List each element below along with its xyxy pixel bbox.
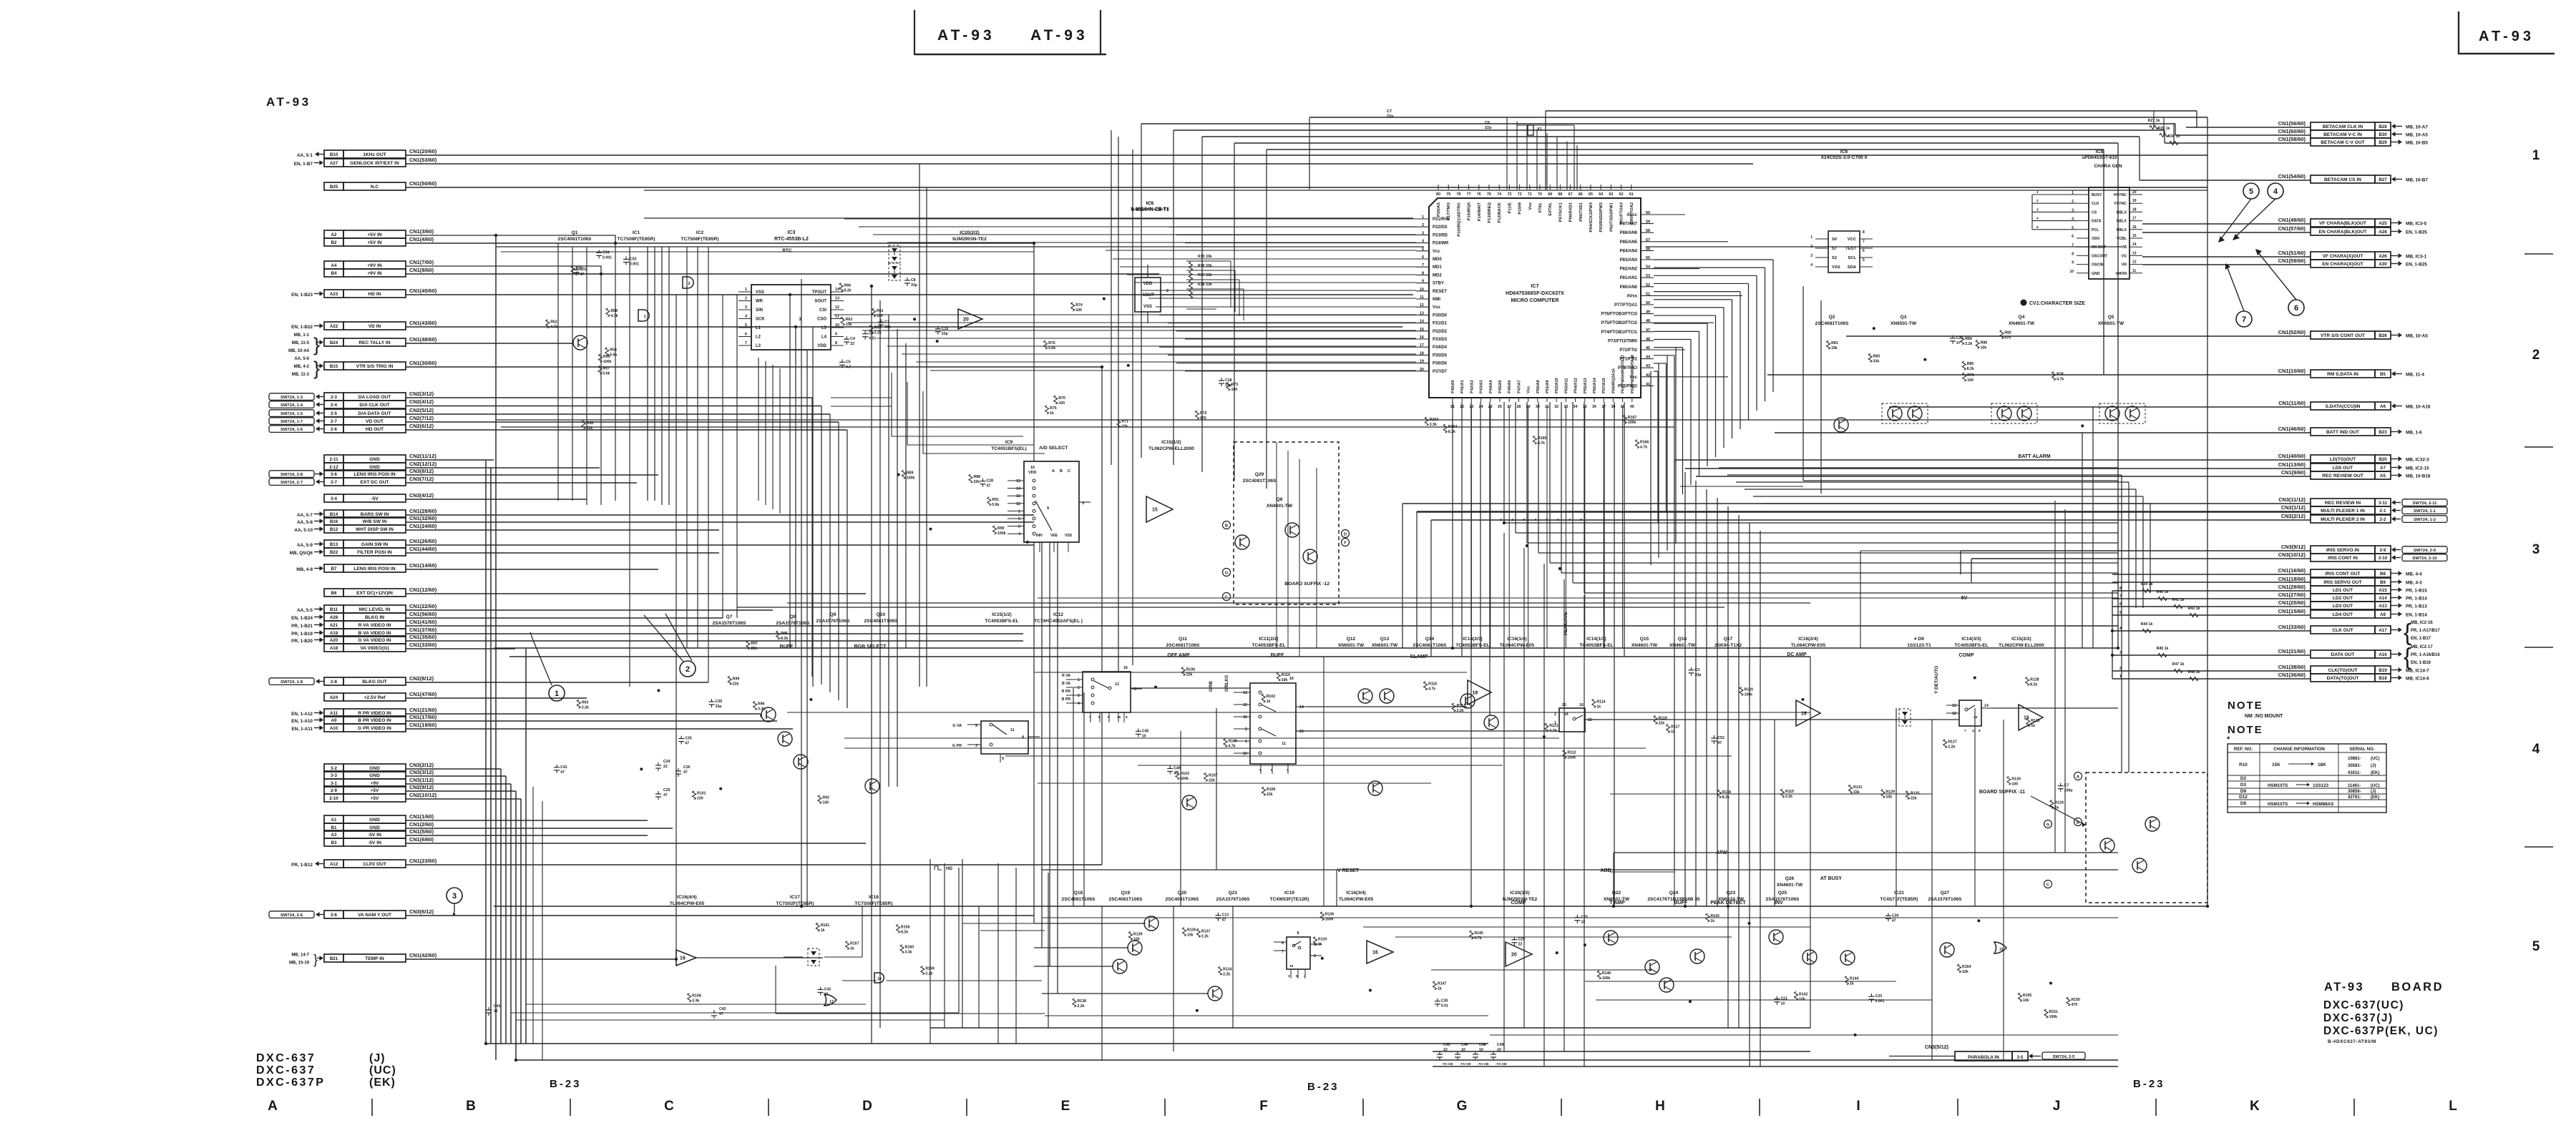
svg-text:IRIS CONT IN: IRIS CONT IN <box>2328 556 2358 561</box>
svg-text:C48: C48 <box>1479 1043 1486 1047</box>
svg-text:40: 40 <box>1630 405 1634 409</box>
svg-text:P23/RD: P23/RD <box>1433 233 1448 237</box>
svg-text:(J): (J) <box>369 1052 386 1064</box>
svg-text:11: 11 <box>1010 728 1015 732</box>
svg-text:GND: GND <box>369 825 380 830</box>
svg-text:TC7S02F(TE85R): TC7S02F(TE85R) <box>776 901 814 906</box>
svg-text:13: 13 <box>1016 479 1020 484</box>
svg-text:2SA1576T106S: 2SA1576T106S <box>816 619 851 624</box>
svg-text:22k: 22k <box>1911 797 1917 801</box>
svg-text:MB, 11-5: MB, 11-5 <box>292 341 310 345</box>
svg-text:P82/AN2: P82/AN2 <box>1620 268 1638 272</box>
svg-text:TC7S08F(TE85R): TC7S08F(TE85R) <box>680 237 718 242</box>
svg-text:CN1(57/60): CN1(57/60) <box>2278 225 2306 232</box>
svg-text:C24: C24 <box>663 760 670 764</box>
svg-text:CN2(7/12): CN2(7/12) <box>409 415 434 421</box>
svg-text:18: 18 <box>2132 207 2137 212</box>
svg-text:R73: R73 <box>1231 383 1238 387</box>
svg-text:A18: A18 <box>330 646 338 651</box>
svg-text:C54: C54 <box>602 250 610 255</box>
svg-text:3-11: 3-11 <box>2379 501 2388 506</box>
svg-text:R142: R142 <box>1799 992 1808 996</box>
svg-text:EN, 1-A10: EN, 1-A10 <box>291 719 313 724</box>
svg-text:VF CHARA(X)OUT: VF CHARA(X)OUT <box>2323 254 2363 259</box>
svg-text:IC16(4/4): IC16(4/4) <box>677 895 697 900</box>
svg-text:C35: C35 <box>685 737 692 741</box>
svg-text:12: 12 <box>1952 712 1956 716</box>
svg-text:2.2k: 2.2k <box>1785 795 1792 799</box>
svg-text:16: 16 <box>2132 225 2137 230</box>
svg-text:WHT DISP SW IN: WHT DISP SW IN <box>356 527 394 532</box>
svg-text:CN1(23/60): CN1(23/60) <box>409 858 437 864</box>
svg-text:CN3(4/12): CN3(4/12) <box>409 492 434 499</box>
svg-text:41611-: 41611- <box>2348 771 2361 775</box>
svg-text::TA-CB: :TA-CB <box>1442 1062 1453 1066</box>
svg-text:S0: S0 <box>1832 237 1837 242</box>
svg-text:EN, 1-B24: EN, 1-B24 <box>291 616 313 621</box>
svg-text:B VA VIDEO IN: B VA VIDEO IN <box>358 631 391 636</box>
svg-text:13: 13 <box>1243 691 1247 695</box>
svg-text:P55/A13: P55/A13 <box>1584 378 1588 393</box>
svg-text:A30: A30 <box>2379 262 2387 267</box>
svg-text:0.01: 0.01 <box>869 337 876 341</box>
svg-text:R70: R70 <box>1058 396 1065 401</box>
svg-text:HD OUT: HD OUT <box>366 427 384 432</box>
svg-text:MB, 1-6: MB, 1-6 <box>2406 431 2422 436</box>
svg-text:VTR S/S TRIG IN: VTR S/S TRIG IN <box>356 364 394 369</box>
svg-text:R84: R84 <box>1965 337 1972 341</box>
svg-text:Q9: Q9 <box>830 612 836 617</box>
svg-text:4.7k: 4.7k <box>1474 936 1481 941</box>
svg-text:Q4: Q4 <box>2019 315 2025 320</box>
svg-text:MB, IC2-15: MB, IC2-15 <box>2406 466 2429 471</box>
svg-text:MB, 10-A5: MB, 10-A5 <box>2406 334 2428 339</box>
svg-text:CN1(44/60): CN1(44/60) <box>409 546 437 552</box>
svg-text:P11/E: P11/E <box>1508 202 1512 214</box>
svg-text:A: A <box>268 1099 278 1114</box>
svg-text:A4: A4 <box>331 263 337 268</box>
svg-text:P43/A3: P43/A3 <box>1480 380 1484 393</box>
svg-text:RM S.DATA IN: RM S.DATA IN <box>2327 372 2358 377</box>
svg-text:R109: R109 <box>1228 739 1237 743</box>
svg-text:P75/FTOB2/FTCI2: P75/FTOB2/FTCI2 <box>1601 321 1638 325</box>
svg-text:6: 6 <box>1271 768 1273 772</box>
svg-text:B-23: B-23 <box>2133 1078 2165 1090</box>
svg-text:R VA: R VA <box>1062 674 1070 678</box>
svg-text:R107: R107 <box>1209 773 1218 778</box>
svg-text:10k: 10k <box>1962 970 1968 974</box>
svg-text:A13: A13 <box>2379 604 2387 609</box>
svg-text:14: 14 <box>1974 715 1978 720</box>
svg-text:R17 33k: R17 33k <box>1198 273 1212 278</box>
svg-text:20: 20 <box>963 318 969 323</box>
svg-text:34: 34 <box>1574 405 1578 409</box>
svg-text:VMON: VMON <box>2115 272 2127 276</box>
svg-text:I: I <box>1856 1099 1860 1114</box>
svg-text:B10: B10 <box>330 152 338 157</box>
svg-text:XN4601-TW: XN4601-TW <box>1777 883 1803 888</box>
svg-text:IC16(2/4): IC16(2/4) <box>1798 637 1818 642</box>
svg-text:*: * <box>2227 735 2230 744</box>
svg-text:OSCOUT: OSCOUT <box>2092 254 2108 258</box>
svg-text:+2.5V Ref: +2.5V Ref <box>364 695 386 700</box>
svg-text:38: 38 <box>1611 405 1615 409</box>
svg-text:22: 22 <box>494 1009 498 1014</box>
svg-text:R144: R144 <box>1850 977 1859 981</box>
svg-text:C7: C7 <box>2064 784 2069 788</box>
svg-text:OUT: OUT <box>1145 293 1154 298</box>
svg-text:14: 14 <box>2132 242 2137 247</box>
svg-text:26: 26 <box>1498 405 1502 409</box>
svg-text:BATT IND OUT: BATT IND OUT <box>2326 430 2359 435</box>
svg-text:A17: A17 <box>2379 628 2387 633</box>
svg-text:Q26: Q26 <box>1785 876 1795 881</box>
svg-text:1KHz OUT: 1KHz OUT <box>363 152 386 157</box>
svg-text:1k: 1k <box>1850 982 1854 986</box>
svg-text:2: 2 <box>1166 289 1169 293</box>
svg-text:G/BLKG: G/BLKG <box>1225 675 1229 692</box>
svg-text:CN1(31/60): CN1(31/60) <box>2278 648 2306 654</box>
svg-text:8: 8 <box>2072 252 2074 256</box>
svg-text:Y DET/AUTO: Y DET/AUTO <box>1934 666 1939 694</box>
svg-text:2.2k: 2.2k <box>1965 342 1972 346</box>
svg-text:A11: A11 <box>330 711 338 716</box>
svg-text:18: 18 <box>877 977 882 981</box>
svg-text:8: 8 <box>1580 518 1582 522</box>
svg-text:# D9: # D9 <box>1914 637 1924 642</box>
svg-text:AA, 5-7: AA, 5-7 <box>297 513 313 518</box>
svg-text:R85: R85 <box>1967 362 1974 366</box>
svg-text:CN1(48/60): CN1(48/60) <box>409 336 437 343</box>
svg-text:VG: VG <box>2122 254 2127 258</box>
svg-text:SW724, 2-6: SW724, 2-6 <box>280 913 303 918</box>
svg-text:MB, IC2-17: MB, IC2-17 <box>2411 645 2433 649</box>
svg-text:VA NAM Y OUT: VA NAM Y OUT <box>358 913 391 918</box>
svg-text:5: 5 <box>1259 768 1262 772</box>
svg-text:33p: 33p <box>911 283 917 288</box>
svg-text:2.2k: 2.2k <box>1948 745 1955 750</box>
svg-text:}: } <box>313 953 318 967</box>
svg-text:2: 2 <box>2036 199 2039 203</box>
svg-text:22k: 22k <box>973 480 980 484</box>
svg-text:R65: R65 <box>874 326 882 330</box>
svg-text:R157: R157 <box>850 942 859 946</box>
svg-text:3-6: 3-6 <box>331 472 338 477</box>
svg-text:100k: 100k <box>2049 1015 2058 1019</box>
svg-text:63: 63 <box>1609 192 1613 197</box>
svg-text:MB, IC14-7: MB, IC14-7 <box>2406 669 2429 674</box>
svg-text:33k: 33k <box>846 323 852 327</box>
svg-text:RTC: RTC <box>782 248 792 253</box>
svg-text:IC8: IC8 <box>2096 149 2104 154</box>
svg-text:MB, IC2-16: MB, IC2-16 <box>2411 621 2433 625</box>
svg-text:R129: R129 <box>1886 790 1896 795</box>
svg-text:(UC): (UC) <box>369 1064 396 1076</box>
svg-text:64: 64 <box>1599 192 1603 197</box>
svg-text:X1: X1 <box>1537 127 1542 132</box>
svg-text:13: 13 <box>2132 251 2137 255</box>
svg-text:GND: GND <box>369 457 380 462</box>
svg-text:CN1(36/60): CN1(36/60) <box>2278 672 2306 678</box>
svg-text:A28: A28 <box>2379 230 2387 235</box>
svg-text:MB, 10-A4: MB, 10-A4 <box>288 349 310 353</box>
svg-text:CN1(45/60): CN1(45/60) <box>409 288 437 294</box>
svg-text:TC7S08F(TE85R): TC7S08F(TE85R) <box>854 901 892 906</box>
svg-text:11461-: 11461- <box>2348 784 2361 788</box>
svg-text:G: G <box>2046 823 2050 828</box>
svg-text:CN1(5/60): CN1(5/60) <box>409 828 434 835</box>
svg-text:1: 1 <box>2072 191 2074 195</box>
svg-text:HD6475368SF-DXC637X: HD6475368SF-DXC637X <box>1506 290 1564 296</box>
svg-text:IC16(1/4): IC16(1/4) <box>1507 637 1527 642</box>
svg-text:3: 3 <box>1810 254 1813 258</box>
svg-text:+5V IN: +5V IN <box>367 232 382 237</box>
svg-text:80: 80 <box>1436 192 1440 197</box>
svg-text:R151: R151 <box>2049 1010 2059 1014</box>
svg-text:8.2k: 8.2k <box>1967 367 1974 371</box>
svg-text:33p: 33p <box>1695 673 1702 677</box>
svg-text:CN1(40/60): CN1(40/60) <box>2278 453 2306 459</box>
svg-text:10: 10 <box>1780 1002 1785 1006</box>
svg-text:15: 15 <box>1299 730 1304 734</box>
svg-text:EN, 1-B22: EN, 1-B22 <box>291 325 313 330</box>
svg-text:CN1(56/60): CN1(56/60) <box>409 611 437 617</box>
svg-text:1k: 1k <box>1596 705 1601 709</box>
svg-text:69: 69 <box>1548 192 1552 197</box>
svg-text:Q18: Q18 <box>1074 891 1083 896</box>
svg-text:NOTE: NOTE <box>2228 724 2263 736</box>
svg-text:D12: D12 <box>2239 795 2248 800</box>
svg-text:1k: 1k <box>1267 700 1271 704</box>
svg-text:C4: C4 <box>850 337 855 341</box>
svg-text:33k: 33k <box>1831 346 1838 350</box>
svg-text:10: 10 <box>1479 1048 1483 1052</box>
svg-text:10: 10 <box>1497 1048 1501 1052</box>
svg-text:P60/IRQ2A16: P60/IRQ2A16 <box>1611 368 1616 393</box>
svg-text:9: 9 <box>1047 506 1049 511</box>
svg-text:C22: C22 <box>1581 916 1588 920</box>
svg-text:P20/AS: P20/AS <box>1437 202 1441 217</box>
svg-text:11: 11 <box>1972 729 1976 733</box>
svg-text:P24/WR: P24/WR <box>1433 242 1449 246</box>
svg-text:RBLX: RBLX <box>2117 228 2127 232</box>
svg-text:B-23: B-23 <box>1307 1081 1340 1093</box>
svg-text:T AMP: T AMP <box>1609 901 1625 906</box>
svg-text:P32/D2: P32/D2 <box>1433 330 1448 334</box>
svg-text:62: 62 <box>1619 192 1624 197</box>
svg-text:2: 2 <box>1018 525 1020 529</box>
svg-text:P44/A4: P44/A4 <box>1489 379 1493 393</box>
svg-text:16: 16 <box>1372 951 1378 956</box>
svg-text:CN1(24/60): CN1(24/60) <box>409 523 437 529</box>
svg-text:2.2k: 2.2k <box>925 972 932 976</box>
svg-text:P41/A1: P41/A1 <box>1460 380 1465 393</box>
svg-text:61: 61 <box>1629 192 1634 197</box>
svg-text:REC REVIEW IN: REC REVIEW IN <box>2325 501 2361 506</box>
svg-text:PR, 1-B21: PR, 1-B21 <box>291 624 313 629</box>
svg-text:CN1(53/60): CN1(53/60) <box>409 157 437 163</box>
svg-text:36: 36 <box>1592 405 1596 409</box>
svg-text:13: 13 <box>1952 704 1956 708</box>
svg-text:SW724, 1-4: SW724, 1-4 <box>280 403 303 408</box>
svg-text:75: 75 <box>1487 192 1491 197</box>
svg-text:-5V: -5V <box>1960 596 1968 601</box>
svg-text:22k: 22k <box>1186 673 1193 677</box>
svg-text:10k: 10k <box>1282 678 1288 682</box>
svg-text:2.2k: 2.2k <box>874 331 882 335</box>
svg-text:IC15(2/2): IC15(2/2) <box>2011 637 2031 642</box>
svg-text:3: 3 <box>1288 974 1290 978</box>
svg-text:BETACAM V-C IN: BETACAM V-C IN <box>2323 132 2362 137</box>
svg-text:XN6501-TW: XN6501-TW <box>2098 321 2124 326</box>
svg-text:3-10: 3-10 <box>2379 556 2388 561</box>
svg-text:1k: 1k <box>1710 919 1714 923</box>
svg-text:47: 47 <box>683 770 688 775</box>
svg-text:4: 4 <box>2532 742 2540 757</box>
svg-text:PR, 1-B12: PR, 1-B12 <box>291 863 313 868</box>
svg-text:Vss: Vss <box>1433 305 1440 310</box>
svg-text:10: 10 <box>835 323 839 328</box>
svg-text:XN4601-TW: XN4601-TW <box>2009 321 2035 326</box>
svg-text:DXC-637(UC): DXC-637(UC) <box>2323 999 2404 1011</box>
svg-text:3: 3 <box>2036 207 2039 212</box>
svg-text:AT-93: AT-93 <box>266 95 311 109</box>
svg-text:GND: GND <box>369 773 380 778</box>
svg-text:L4: L4 <box>821 335 827 340</box>
svg-text:VA VIDEO(G): VA VIDEO(G) <box>360 646 389 651</box>
svg-text:37: 37 <box>1601 405 1606 409</box>
svg-text:TC4053BFS-EL: TC4053BFS-EL <box>1579 643 1613 648</box>
svg-text:Q21: Q21 <box>1229 891 1238 896</box>
svg-text:LD4 OUT: LD4 OUT <box>2333 612 2353 617</box>
svg-text:CS: CS <box>2092 210 2097 215</box>
svg-text:2: 2 <box>1314 954 1316 958</box>
svg-text:22k: 22k <box>733 682 739 686</box>
svg-text:MD2: MD2 <box>1433 273 1442 278</box>
svg-text:7: 7 <box>1863 240 1865 244</box>
svg-text:LD2 OUT: LD2 OUT <box>2333 596 2353 601</box>
svg-text:SCK: SCK <box>756 318 765 322</box>
svg-text:A15: A15 <box>2379 588 2387 593</box>
svg-text:14: 14 <box>1984 704 1989 708</box>
svg-text:TL062CPW-ELL2000: TL062CPW-ELL2000 <box>1148 446 1194 451</box>
svg-text:CK OUT: CK OUT <box>2092 245 2107 250</box>
svg-text:B1: B1 <box>331 825 337 830</box>
svg-text:B11: B11 <box>330 607 338 612</box>
svg-text:VTR S/S CONT OUT: VTR S/S CONT OUT <box>2321 333 2365 338</box>
svg-text:AT-93: AT-93 <box>937 27 995 44</box>
svg-text:7: 7 <box>1964 729 1966 733</box>
svg-text:R115: R115 <box>1785 790 1794 794</box>
svg-text:R138: R138 <box>1077 999 1086 1004</box>
svg-text:22: 22 <box>663 765 668 769</box>
svg-text:R41 1k: R41 1k <box>2172 598 2185 602</box>
svg-text:GENLOCK INT/EXT IN: GENLOCK INT/EXT IN <box>350 161 399 166</box>
svg-text:A25: A25 <box>2379 221 2387 226</box>
svg-text:P93/RXD2/PW2: P93/RXD2/PW2 <box>1599 202 1604 232</box>
svg-text:MB, IC32-3: MB, IC32-3 <box>2406 458 2429 463</box>
svg-text:P40/A0: P40/A0 <box>1451 380 1455 393</box>
svg-text:B29: B29 <box>2379 140 2387 145</box>
svg-text:TC4053BFS-EL: TC4053BFS-EL <box>1954 643 1988 648</box>
svg-text:AA, 5-10: AA, 5-10 <box>294 528 313 533</box>
svg-text:22: 22 <box>1518 943 1522 947</box>
svg-text:CN1(42/60): CN1(42/60) <box>409 952 437 958</box>
svg-text:LD1 OUT: LD1 OUT <box>2333 588 2353 593</box>
svg-text:R117: R117 <box>1671 725 1679 730</box>
svg-text:1: 1 <box>2532 148 2540 163</box>
svg-text:0.001: 0.001 <box>602 255 612 260</box>
svg-text:TC74HC4052AFS(EL ): TC74HC4052AFS(EL ) <box>1034 619 1083 624</box>
svg-text:P57/A15: P57/A15 <box>1602 378 1606 393</box>
svg-text:P36/D6: P36/D6 <box>1433 362 1448 366</box>
svg-text:3: 3 <box>1523 518 1525 522</box>
svg-text:CLP2 OUT: CLP2 OUT <box>363 862 386 867</box>
svg-text:CN3(9/12): CN3(9/12) <box>2281 544 2306 550</box>
svg-text:74: 74 <box>1497 192 1501 197</box>
svg-text:SW724, 1-6: SW724, 1-6 <box>280 428 303 432</box>
svg-text:CN1(18/60): CN1(18/60) <box>2278 576 2306 582</box>
svg-text:3: 3 <box>2532 542 2540 557</box>
svg-text:CN1(32/60): CN1(32/60) <box>409 515 437 521</box>
svg-text:DXC-637P(EK, UC): DXC-637P(EK, UC) <box>2323 1025 2439 1037</box>
svg-text::TA-CB: :TA-CB <box>1478 1062 1489 1066</box>
svg-text:C34: C34 <box>1892 913 1899 918</box>
svg-text:R93: R93 <box>582 700 589 705</box>
svg-text:Q27: Q27 <box>1941 891 1950 896</box>
svg-text:SIN: SIN <box>756 308 763 313</box>
svg-text:TC4053BFS-EL: TC4053BFS-EL <box>1252 643 1285 648</box>
svg-text:R113: R113 <box>1457 704 1465 708</box>
svg-text:IRIS CONT OUT: IRIS CONT OUT <box>2325 572 2360 577</box>
svg-text:}: } <box>313 358 320 379</box>
svg-text:B25: B25 <box>330 185 338 190</box>
svg-text:3-3: 3-3 <box>331 773 338 778</box>
svg-text:4: 4 <box>1810 263 1813 268</box>
svg-text:20: 20 <box>2132 190 2137 195</box>
svg-text:IC17: IC17 <box>790 895 800 900</box>
svg-text:RESET: RESET <box>1433 290 1447 294</box>
svg-text:S.DATA(CCU)IN: S.DATA(CCU)IN <box>2326 404 2361 409</box>
svg-text:4.7k: 4.7k <box>1549 729 1556 733</box>
svg-text:VD OUT: VD OUT <box>366 419 384 424</box>
svg-text:22p: 22p <box>1387 114 1394 119</box>
svg-text:2-7: 2-7 <box>331 419 338 424</box>
svg-text:A28: A28 <box>330 615 338 620</box>
svg-text:XTAL: XTAL <box>1538 202 1543 213</box>
svg-text:4: 4 <box>1078 702 1080 706</box>
svg-text:GND: GND <box>2092 272 2100 276</box>
svg-text:(EK): (EK) <box>2371 771 2379 775</box>
svg-text:R81: R81 <box>1831 341 1838 345</box>
svg-text:B VA: B VA <box>1062 682 1070 686</box>
svg-text:+5V: +5V <box>371 796 380 801</box>
svg-text:CLK: CLK <box>2092 202 2099 206</box>
svg-text:-5V IN: -5V IN <box>368 840 381 845</box>
svg-text:H: H <box>1655 1099 1665 1114</box>
svg-text:Q20: Q20 <box>1178 891 1187 896</box>
svg-text:B6: B6 <box>331 591 337 596</box>
svg-text:HSM88AS: HSM88AS <box>2313 802 2333 807</box>
svg-text:R18 33k: R18 33k <box>1198 283 1212 287</box>
svg-text:0.001: 0.001 <box>630 262 639 266</box>
svg-text:CN1(6/60): CN1(6/60) <box>409 836 434 843</box>
svg-text:1k: 1k <box>850 947 854 951</box>
svg-text:CN1(60/60): CN1(60/60) <box>2278 128 2306 134</box>
svg-text:73: 73 <box>1507 192 1511 197</box>
svg-text:CN1(43/60): CN1(43/60) <box>409 320 437 326</box>
svg-text:MB, 14-7: MB, 14-7 <box>291 953 309 958</box>
